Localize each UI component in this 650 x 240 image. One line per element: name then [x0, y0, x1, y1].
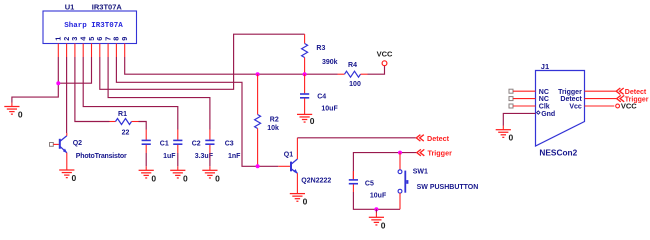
capacitor C5 top pin [352, 171, 354, 180]
svg-text:1uF: 1uF [163, 153, 176, 160]
wire pin3 to R1 [75, 57, 110, 122]
svg-text:Detect: Detect [427, 134, 450, 143]
wire pin7 to C3 [108, 57, 210, 130]
svg-text:1nF: 1nF [228, 153, 241, 160]
connector J1 left pin row 2 [513, 98, 536, 100]
ground stem C3 [209, 166, 211, 170]
off-page connector Detect right [616, 88, 624, 94]
svg-text:R2: R2 [270, 117, 279, 124]
connector J1 right pin Trigger [585, 90, 616, 92]
switch SW1 body [398, 170, 408, 193]
wire J1 Gnd to ground [503, 113, 535, 125]
svg-text:C5: C5 [365, 180, 374, 187]
capacitor C3 bottom pin [209, 145, 211, 153]
capacitor C4 top pin [304, 74, 306, 93]
wire C1 to ground [145, 153, 147, 166]
svg-text:3.3uF: 3.3uF [195, 153, 214, 160]
transistor Q1 collector pin [296, 138, 298, 159]
ground symbol under Q2 [59, 170, 74, 178]
ground stem Q1 [296, 190, 298, 194]
svg-text:Q1: Q1 [284, 151, 293, 158]
switch SW1 top pin [399, 153, 401, 170]
svg-text:C1: C1 [160, 141, 169, 148]
junction R2 bottom on base wire [256, 164, 260, 168]
svg-text:SW1: SW1 [413, 169, 428, 176]
wire Q1 collector to Detect connector [297, 137, 415, 139]
svg-text:22: 22 [122, 130, 130, 137]
resistor R3 bottom pin [304, 58, 306, 75]
connector J1 pad square row 2 [509, 97, 513, 101]
svg-text:PhotoTransistor: PhotoTransistor [76, 153, 127, 160]
off-page connector Trigger [417, 149, 425, 155]
resistor R1 body [116, 119, 132, 125]
ground symbol under Q1 [290, 194, 305, 202]
resistor R1 right pin [132, 121, 139, 123]
ground symbol left [4, 107, 19, 115]
connector J1 left pin row 1 [513, 90, 536, 92]
transistor Q1 emitter pin [296, 173, 298, 189]
transistor Q2 pad square [50, 143, 54, 147]
svg-text:10k: 10k [267, 125, 279, 132]
power symbol VCC circle right [616, 104, 620, 108]
svg-text:0: 0 [18, 110, 23, 120]
capacitor C2 body [173, 140, 182, 144]
transistor Q2 collector pin [66, 133, 68, 136]
svg-text:0: 0 [509, 133, 514, 143]
wire pin2 to Q2 collector [66, 57, 68, 133]
capacitor C2 top pin [177, 130, 179, 141]
svg-text:R4: R4 [348, 62, 357, 69]
svg-text:0: 0 [151, 173, 156, 183]
IC U1 Sharp IR3T07A body [43, 11, 137, 44]
connector J1 right pin Detect [585, 98, 617, 100]
svg-text:0: 0 [215, 173, 220, 183]
svg-text:Sharp IR3T07A: Sharp IR3T07A [64, 22, 123, 30]
junction ground on bottom rail [374, 207, 378, 211]
resistor R2 body [255, 115, 261, 129]
svg-text:Vcc: Vcc [569, 104, 582, 111]
capacitor C2 bottom pin [177, 145, 179, 153]
svg-text:NC: NC [539, 89, 549, 96]
connector J1 pad square row 3 [509, 104, 513, 108]
svg-text:0: 0 [303, 197, 308, 207]
wire pin8 to Q1 base [116, 57, 278, 166]
ground symbol under C4 [297, 114, 312, 122]
ground symbol J1 [496, 130, 511, 138]
transistor Q1 body [291, 159, 298, 174]
connector J1 left pin row 3 [513, 105, 536, 107]
ground stem left [11, 103, 13, 107]
svg-text:10uF: 10uF [321, 106, 338, 113]
wire pin4 to C2 [83, 57, 178, 130]
transistor Q2 base pin [53, 143, 59, 145]
ground stem C1 [145, 166, 147, 170]
svg-text:0: 0 [310, 116, 315, 126]
svg-text:10uF: 10uF [370, 193, 387, 200]
svg-text:Detect: Detect [560, 96, 582, 103]
svg-text:0: 0 [381, 221, 386, 231]
svg-text:0: 0 [183, 173, 188, 183]
wire R1 to C1 top [139, 122, 147, 130]
capacitor C1 top pin [145, 130, 147, 141]
capacitor C3 top pin [209, 130, 211, 141]
wire C5 to bottom rail [353, 192, 400, 209]
resistor R4 body [345, 71, 361, 77]
U1 pin numbers 1-9 [54, 36, 129, 41]
svg-text:Trigger: Trigger [428, 149, 453, 158]
svg-text:C2: C2 [192, 141, 201, 148]
junction SW1 top [398, 151, 402, 155]
ground symbol under C2 [170, 170, 185, 178]
junction R3 bottom on rail [303, 72, 307, 76]
ground stem SW/C5 [375, 213, 377, 218]
svg-text:Q2: Q2 [73, 140, 82, 147]
connector J1 right pin Vcc [585, 105, 615, 107]
off-page connector Trigger right [617, 95, 625, 101]
svg-text:100: 100 [349, 81, 361, 88]
wire R4 to VCC [368, 66, 385, 74]
wire pin9 to rail [125, 57, 338, 74]
switch SW1 bottom pin [399, 193, 401, 209]
wire C3 to ground [209, 153, 211, 166]
capacitor C4 body [300, 94, 309, 98]
capacitor C3 body [205, 140, 214, 144]
svg-text:C3: C3 [225, 141, 234, 148]
svg-text:NESCon2: NESCon2 [539, 148, 577, 158]
power symbol VCC top [382, 61, 387, 66]
svg-text:R3: R3 [316, 45, 325, 52]
svg-text:Gnd: Gnd [541, 111, 555, 118]
wire pin5 down-left to pin1 [58, 57, 91, 83]
svg-text:0: 0 [72, 173, 77, 183]
svg-text:390k: 390k [322, 59, 338, 66]
transistor Q2 body [60, 136, 67, 153]
svg-text:SW PUSHBUTTON: SW PUSHBUTTON [417, 184, 479, 191]
svg-text:J1: J1 [541, 62, 549, 71]
capacitor C1 body [142, 140, 151, 144]
wire C2 to ground [177, 153, 179, 166]
transistor Q1 base pin [278, 165, 290, 167]
transistor Q2 emitter pin [66, 153, 68, 166]
capacitor C5 body [349, 180, 358, 184]
ground stem J1 [502, 126, 504, 130]
svg-text:Q2N2222: Q2N2222 [301, 178, 331, 185]
ground symbol under C3 [202, 170, 217, 178]
svg-text:R1: R1 [118, 111, 127, 118]
svg-text:Trigger: Trigger [558, 89, 582, 96]
ground stem Q2 [66, 166, 68, 170]
off-page connector Detect [416, 135, 424, 141]
connector J1 body [536, 71, 585, 147]
U1 pins 1-9 red stubs [58, 44, 124, 58]
resistor R1 left pin [110, 121, 116, 123]
junction R2 top on rail [256, 72, 260, 76]
capacitor C5 bottom pin [352, 184, 354, 192]
svg-text:9: 9 [120, 37, 129, 41]
svg-text:VCC: VCC [621, 102, 637, 111]
junction pin1-pin5 [56, 81, 60, 85]
connector J1 pad square row 1 [509, 89, 513, 93]
svg-text:U1: U1 [65, 2, 75, 11]
ground stem C2 [177, 166, 179, 170]
wire bottom rail to ground [375, 209, 377, 212]
svg-text:VCC: VCC [377, 49, 393, 58]
wire Trigger net top [353, 153, 416, 179]
svg-text:NC: NC [539, 96, 549, 103]
resistor R2 top pin [257, 74, 259, 114]
wire pin1 down to ground [12, 57, 58, 103]
resistor R3 body [302, 44, 308, 58]
resistor R3 top pin [304, 34, 306, 43]
svg-text:Clk: Clk [539, 104, 550, 111]
svg-text:Detect: Detect [625, 89, 647, 96]
resistor R4 left pin [338, 73, 345, 75]
ground symbol under C5/SW1 [369, 217, 384, 225]
wire pin6 up-over to R3 top [100, 34, 305, 89]
svg-text:IR3T07A: IR3T07A [92, 2, 123, 11]
capacitor C4 bottom pin [304, 98, 306, 114]
resistor R2 bottom pin [257, 129, 259, 167]
svg-text:C4: C4 [317, 93, 326, 100]
connector J1 Gnd diamond [537, 111, 540, 114]
capacitor C1 bottom pin [145, 145, 147, 153]
ground symbol under C1 [139, 170, 154, 178]
resistor R4 right pin [361, 73, 368, 75]
